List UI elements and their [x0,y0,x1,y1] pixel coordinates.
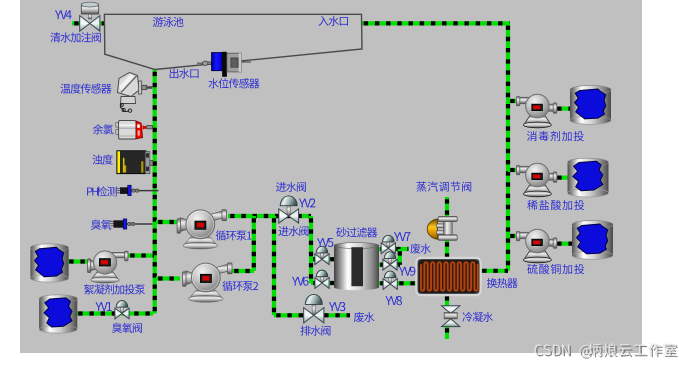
wire YV7 stub left [378,247,383,251]
hydrochloric acid dosing pump [516,163,556,197]
label water outlet [170,68,199,78]
wire heat exchanger right connection [480,269,508,273]
label YV3 [329,302,345,311]
wire dosing pump 3 to tank stub [555,242,572,246]
label inlet valve top [276,182,306,192]
condensate valve [442,306,460,327]
valve YV4 clean water fill valve [80,2,100,31]
wire YV5 stub right [328,257,335,261]
label copper sulfate dosing [527,264,584,274]
wire YV3 left segment [274,313,305,317]
valve YV2 inlet valve [279,196,299,223]
valve YV1 ozone valve [115,301,129,319]
label drain valve [300,326,330,336]
label PH detection [87,186,117,196]
label residual chlorine [93,124,114,134]
wire condensate valve outlet [445,326,449,339]
label waste water bottom [354,312,375,322]
label condensate water [462,312,493,322]
wire exchanger bottom to condensate valve [445,294,449,307]
wire YV4 stub left [72,21,80,25]
disinfectant dosing pump [516,94,556,128]
wire pool drain vertical pipe [153,70,157,314]
label flocculant dosing pump [84,284,145,294]
wire pump2 suction line [156,276,180,280]
wire YV8 stub left [378,281,383,285]
wire YV5 stub left [311,257,317,261]
label temperature sensor [60,83,111,93]
disinfectant tank [570,86,611,125]
wire drop to drain valve YV3 [272,216,276,315]
wire dosing pump 2 suction stub [508,168,518,172]
wire tank1 to flocculant pump [67,259,89,263]
wire right header vertical pipe [506,23,510,270]
label YV5 [317,238,333,247]
label ozone valve [112,323,142,333]
copper sulfate dosing pump [516,229,556,262]
label swimming pool [153,17,184,27]
circulation pump 1 [177,210,226,249]
wire ozone line to pump 1 inlet [156,220,178,224]
label clean water fill valve [50,32,100,42]
turbidity sensor [117,151,153,174]
ozone tank [39,295,77,333]
label ozone [91,220,111,230]
wire pump2 discharge riser [252,216,256,271]
wire YV8 to heat exchanger [397,281,417,285]
hydrochloric acid tank [568,158,609,197]
water level sensor [197,52,251,77]
copper sulfate tank [572,221,613,260]
sand filter vessel [334,243,379,291]
wire dosing pump 3 suction stub [508,234,518,238]
wire pump2 discharge elbow [232,269,254,273]
wire YV9 stub right [396,263,400,267]
wire YV4 stub right [100,21,108,25]
label waste water right [410,243,431,253]
label YV2 [299,198,315,207]
valve YV7 [381,235,395,253]
label hydrochloric acid dosing [527,200,584,210]
flocculant dosing pump [88,251,129,283]
label inlet valve bottom [278,226,308,236]
valve YV6 [315,270,329,288]
label YV9 [399,267,415,276]
wire YV6 stub right [328,281,335,285]
valve YV8 [383,271,397,289]
label YV1 [95,302,111,311]
swimming pool outline [104,14,362,69]
wire dosing pump 2 to tank stub [555,176,568,180]
residual chlorine sensor [116,121,153,139]
valve YV5 [315,246,329,264]
wire dosing pump 1 to tank stub [555,106,570,110]
label disinfectant dosing [527,131,584,141]
label heat exchanger [487,278,518,288]
wire drop to filter inlet valves [309,216,313,283]
wire pool top outlet pipe to right header [362,21,510,25]
circulation pump 2 [183,263,232,302]
wire steam valve to exchanger top [445,240,449,259]
valve YV9 [383,252,397,270]
wire tank2 to valve YV1 line [76,311,153,315]
wire dosing pump 1 suction stub [508,99,518,103]
label water level sensor [208,78,259,88]
wire flocculant pump outlet line [128,253,154,257]
flocculant tank [30,244,68,282]
label YV4 [55,10,72,19]
PH detector [117,185,159,195]
wire YV7 waste line right [394,247,409,251]
heat exchanger [417,258,481,295]
valve YV3 drain valve [304,294,324,323]
label YV7 [394,232,411,241]
label steam regulating valve [416,182,471,192]
wire YV6 stub left [311,281,317,285]
label circulation pump 2 [222,281,258,291]
label YV8 [385,296,402,305]
wire steam supply above valve [445,197,449,217]
label circulation pump 1 [216,230,252,240]
steam regulating valve [427,216,457,240]
label turbidity [92,154,112,164]
label YV6 [292,277,309,286]
wire YV9 stub left [378,263,384,267]
ozone sensor [110,219,152,229]
temperature sensor [118,73,153,113]
wire main process header through YV2 [228,214,311,218]
label water inlet [318,16,348,26]
label sand filter [336,227,377,237]
wire YV9 riser to waste line [398,249,402,265]
wire YV3 right waste segment [322,313,350,317]
watermark CSDN [534,343,677,359]
